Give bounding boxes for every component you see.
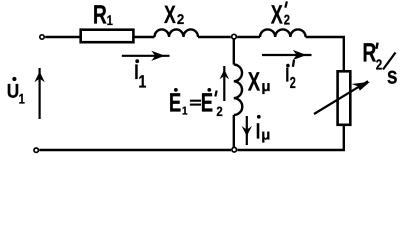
arrow I2' (right) — [262, 50, 312, 60]
resistor R2'/s (variable) — [338, 71, 351, 125]
wire Xmu to node B — [233, 115, 235, 147]
svg-text:2: 2 — [290, 75, 296, 92]
svg-text:E: E — [169, 87, 181, 117]
inductor X2' — [260, 29, 306, 37]
wire bottom — [39, 149, 231, 151]
inductor Xmu — [234, 65, 242, 116]
svg-text:R: R — [93, 0, 107, 29]
svg-text:X: X — [248, 66, 261, 96]
svg-text:1: 1 — [182, 106, 188, 118]
svg-text:I: I — [256, 118, 261, 143]
svg-text:2: 2 — [216, 104, 222, 119]
arrow U1 (up) — [34, 68, 44, 119]
wire X2 to node A — [198, 36, 231, 38]
wire top-left — [45, 36, 80, 38]
terminal T1 (top left) — [40, 35, 44, 39]
svg-text:2: 2 — [284, 12, 290, 28]
svg-text:U: U — [7, 81, 19, 103]
label Xmu — [248, 66, 271, 96]
node A (top junction) — [232, 34, 237, 39]
svg-text:X: X — [164, 1, 176, 29]
svg-text:R: R — [362, 38, 376, 68]
inductor X2 — [155, 29, 199, 37]
arrow variable resistor (diagonal) — [314, 81, 370, 114]
svg-text:I: I — [285, 65, 289, 87]
node B (bottom junction) — [232, 147, 237, 152]
wire X2' to right corner — [306, 37, 344, 70]
wire node A to X2' — [237, 36, 260, 38]
svg-text:2: 2 — [177, 11, 185, 27]
arrow Imu (down) — [242, 116, 252, 145]
wire R1 to X2 — [135, 36, 155, 38]
arrow E1 (up) — [220, 66, 230, 101]
svg-text:s: s — [387, 63, 398, 90]
svg-text:E: E — [201, 87, 213, 117]
terminal T2 (bottom left) — [34, 148, 38, 152]
label I2' — [285, 60, 296, 92]
resistor R1 — [81, 30, 134, 43]
label X2' — [271, 0, 290, 29]
label X2 — [164, 1, 185, 29]
svg-text:1: 1 — [107, 12, 113, 28]
svg-text:2: 2 — [376, 58, 382, 74]
arrow I1 (right) — [122, 51, 170, 61]
wire resistor to bottom — [237, 126, 343, 150]
svg-text:X: X — [271, 0, 283, 29]
label R1 — [93, 0, 113, 29]
label Imu — [256, 115, 271, 143]
label E1=E2' — [169, 87, 223, 119]
wire node A down — [233, 39, 235, 64]
svg-text:μ: μ — [261, 78, 270, 95]
label R2'/s — [362, 38, 397, 90]
label I1 — [134, 59, 146, 91]
svg-text:1: 1 — [19, 90, 25, 106]
svg-text:1: 1 — [138, 71, 146, 91]
svg-text:μ: μ — [261, 126, 270, 143]
label U1 — [7, 77, 25, 106]
